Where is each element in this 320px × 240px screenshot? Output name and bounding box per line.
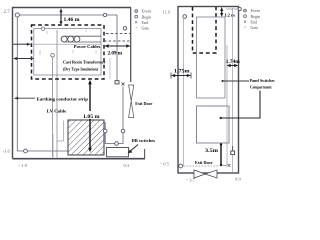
- svg-text:2.7: 2.7: [4, 10, 11, 15]
- node circle bottom-left: [24, 149, 28, 153]
- wire marker line top right: [226, 8, 239, 10]
- svg-text:Compartment: Compartment: [250, 84, 272, 89]
- svg-text:1.05 m: 1.05 m: [83, 115, 100, 120]
- svg-text:Gate: Gate: [251, 25, 259, 30]
- inner vertical line right 1: [226, 45, 228, 165]
- svg-text:Exit Door: Exit Door: [135, 101, 152, 106]
- dimension 1.46 m: [59, 8, 62, 25]
- svg-text:Panel Switches: Panel Switches: [250, 78, 275, 83]
- svg-text:2.09 m: 2.09 m: [108, 52, 123, 57]
- svg-text:Cast Resin Transformer: Cast Resin Transformer: [63, 59, 106, 64]
- arrow into box y44: [13, 43, 29, 45]
- svg-text:Power Cables: Power Cables: [74, 44, 101, 49]
- wire faint jog near trench: [57, 121, 64, 142]
- cable route dashed y33.5: [106, 33, 131, 35]
- wire horizontal bottom-left: [17, 150, 68, 152]
- legend left panel: [135, 9, 152, 31]
- exit path dashed: [184, 165, 220, 167]
- wire vertical from node A down: [16, 17, 18, 151]
- svg-text:1.74m: 1.74m: [226, 60, 240, 65]
- legend right panel: [244, 8, 261, 30]
- node circle U left: [103, 129, 107, 133]
- svg-text:End: End: [251, 19, 257, 24]
- door bowtie: [194, 170, 205, 178]
- scan ticks in transformer box: [40, 29, 96, 55]
- svg-text:(Dry Type Insulation): (Dry Type Insulation): [63, 66, 98, 71]
- svg-text:Begin: Begin: [251, 14, 261, 19]
- arrow to wall y58.5: [16, 58, 34, 60]
- node circle exit left: [179, 164, 183, 168]
- svg-text:11.6: 11.6: [163, 10, 172, 15]
- DB switches box: [107, 148, 129, 157]
- outer wall right room: [178, 7, 239, 174]
- wire leader from node A to right: [19, 14, 117, 16]
- marker x exit right: [223, 164, 228, 166]
- wire faint vertical inner 2: [52, 134, 54, 158]
- wall stub right: [144, 149, 146, 159]
- transformer inner rect: [34, 29, 101, 76]
- svg-text:1.46 m: 1.46 m: [64, 18, 80, 23]
- LV trench hatched box: [68, 120, 104, 155]
- wall left room outline: [13, 8, 132, 159]
- exit door vertical bowtie left panel: [129, 85, 134, 101]
- svg-text:Event: Event: [251, 8, 261, 13]
- node A circle top-left: [15, 13, 19, 17]
- node B circle on leader: [103, 13, 106, 16]
- leader 2: [221, 91, 260, 119]
- dimension 1.2 m: [220, 7, 223, 17]
- marker square end: [115, 81, 119, 84]
- svg-text:Gate: Gate: [142, 26, 150, 31]
- svg-text:− 3.7: − 3.7: [186, 178, 196, 183]
- wire faint vertical inner: [56, 30, 58, 158]
- cable route dashed y41: [104, 40, 131, 42]
- node circle top right: [238, 7, 241, 10]
- inner tall rect: [197, 17, 226, 98]
- svg-text:End: End: [142, 20, 148, 25]
- svg-text:- 1.9: - 1.9: [19, 163, 28, 168]
- dimension 2.09 m: [104, 44, 130, 47]
- svg-text:LV Cable: LV Cable: [47, 108, 67, 113]
- svg-text:-3.6: -3.6: [3, 149, 11, 154]
- HV compartment dashed box: [193, 7, 217, 53]
- svg-text:1.75m: 1.75m: [174, 69, 190, 74]
- svg-text:Earthing conductor strip: Earthing conductor strip: [37, 97, 89, 102]
- leader 1: [223, 80, 250, 82]
- node circle U right: [121, 129, 125, 133]
- inner lower rect: [197, 106, 230, 143]
- wire U route right of hatch: [105, 87, 123, 144]
- power cables tray: [61, 36, 101, 42]
- dimension 1.05 m vertical: [88, 80, 92, 153]
- svg-text:− 0.5: − 0.5: [160, 162, 170, 167]
- node circle U bottom: [115, 142, 119, 146]
- leader earthing arrow: [17, 97, 35, 99]
- svg-text:Begin: Begin: [142, 14, 152, 19]
- svg-text:Event: Event: [142, 9, 152, 14]
- wire vline from circle x52.5: [52, 57, 54, 158]
- divider line in box: [34, 43, 101, 45]
- leader DB arrow: [130, 145, 138, 152]
- wire faint leader x110: [109, 58, 111, 79]
- marker square right: [231, 151, 235, 155]
- power cables circles: [61, 36, 67, 42]
- svg-text:3.5m: 3.5m: [205, 149, 218, 154]
- node circle right of box: [123, 27, 126, 30]
- svg-text:DB switches: DB switches: [132, 138, 156, 143]
- inner vertical line left: [183, 17, 185, 166]
- svg-text:0.3: 0.3: [124, 163, 130, 168]
- node small circle in box: [41, 27, 44, 30]
- svg-text:Exit Door: Exit Door: [195, 160, 213, 165]
- dimension 3.5m: [220, 145, 222, 166]
- inner vertical line right 2: [232, 8, 234, 172]
- node circle top-left right panel: [183, 15, 187, 19]
- wall right upper (to door): [130, 8, 132, 83]
- transformer enclosure dashed box: [32, 25, 105, 79]
- svg-text:0.0: 0.0: [235, 177, 241, 182]
- node small circle in box 2: [51, 54, 55, 58]
- svg-text:1.2 m: 1.2 m: [224, 12, 235, 17]
- wire leader down right: [116, 15, 118, 81]
- wall bottom: [13, 158, 146, 160]
- marker x end: [122, 83, 125, 86]
